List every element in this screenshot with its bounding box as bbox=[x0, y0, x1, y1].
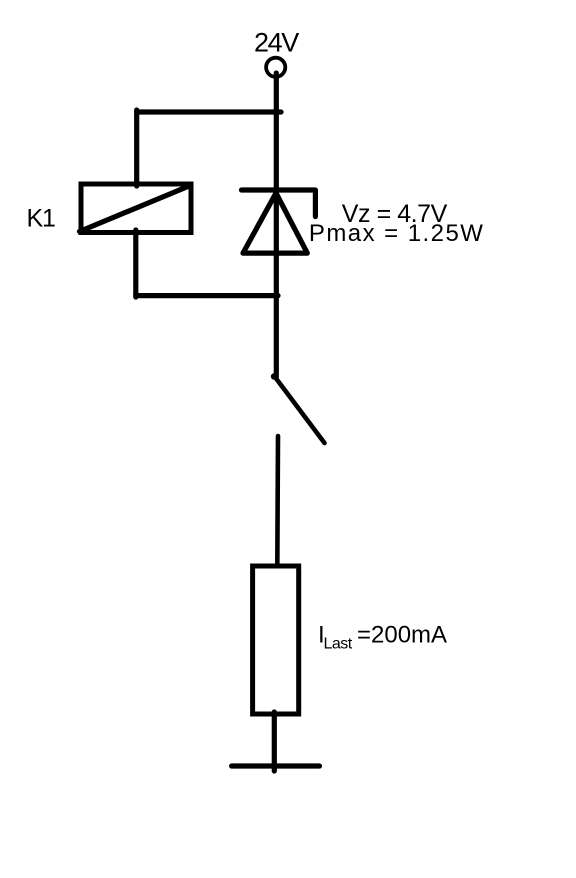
node 24V supply terminal (circle) bbox=[266, 58, 285, 77]
relay K1 coil diagonal bbox=[80, 186, 191, 232]
zener diode D1 anode triangle bbox=[243, 193, 307, 253]
wire resistor bottom to ground bbox=[272, 712, 277, 771]
wire main vertical from terminal down through zener to switch pivot bbox=[274, 73, 279, 377]
wire left vertical lower (relay coil bottom to bottom rail) bbox=[133, 230, 138, 297]
wire top horizontal from left branch to main node bbox=[137, 109, 281, 114]
resistor load body bbox=[253, 566, 299, 714]
zener diode D1 cathode bar bbox=[242, 190, 316, 217]
wire bottom horizontal (left branch to main node) bbox=[136, 293, 278, 298]
wire left vertical upper (top rail to relay coil top) bbox=[134, 110, 139, 186]
wire lower contact vertical (switch to resistor top) bbox=[275, 436, 280, 566]
svg-text:K1: K1 bbox=[27, 205, 55, 233]
switch S pivot dot bbox=[271, 373, 277, 379]
svg-text:24V: 24V bbox=[254, 28, 299, 58]
switch S arm (open blade) bbox=[277, 379, 325, 443]
svg-text:Pmax = 1.25W: Pmax = 1.25W bbox=[309, 220, 484, 247]
relay K1 coil body bbox=[81, 184, 191, 233]
ground bar bbox=[232, 763, 320, 768]
